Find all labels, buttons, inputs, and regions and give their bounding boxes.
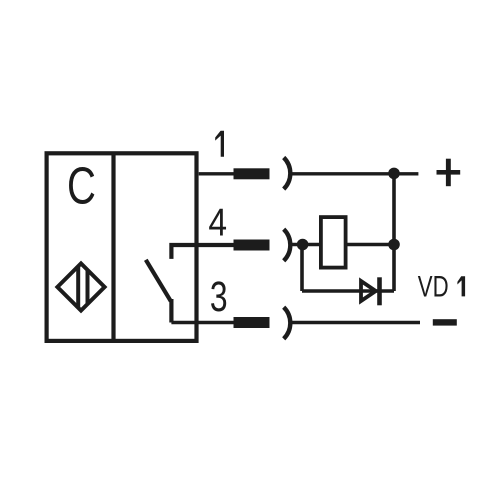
svg-text:VD: VD (418, 269, 449, 303)
plus sign (437, 170, 461, 175)
connector socket arc 4 (284, 229, 291, 261)
wire pin3 from switch (171, 321, 233, 324)
diode VD1 cathode bar (377, 277, 382, 305)
wire load to junction right (346, 243, 394, 246)
junction dot pin4 right (388, 239, 400, 251)
vertical wire junction to plus rail (392, 174, 396, 291)
diamond inner line right (86, 270, 90, 304)
svg-text:4: 4 (208, 200, 227, 244)
minus sign (433, 319, 457, 325)
switch lower lead (169, 299, 173, 323)
wire arc4 to load (291, 243, 320, 246)
switch blade (146, 260, 171, 301)
terminal bar pin 1 (234, 168, 270, 179)
terminal bar pin 3 (234, 317, 270, 328)
terminal bar pin 4 (234, 240, 270, 251)
switch fixed contact with hook (171, 245, 233, 259)
diamond sensor symbol (57, 263, 104, 310)
diode loop bottom wire (302, 289, 394, 293)
divider line (111, 153, 115, 341)
wire pin1 to plus (291, 172, 419, 175)
junction dot top (388, 168, 400, 180)
vertical wire left of diode loop (300, 245, 304, 292)
svg-text:C: C (67, 156, 96, 214)
load rectangle (321, 217, 346, 268)
wire pin3 to minus (291, 321, 420, 324)
connector socket arc 3 (284, 307, 291, 339)
diamond inner line left (76, 266, 80, 308)
connector socket arc 1 (284, 158, 291, 190)
wire pin1 from box (199, 172, 234, 175)
junction dot pin4 left (297, 239, 309, 251)
svg-text:3: 3 (210, 272, 228, 320)
pin label 1 (215, 131, 224, 157)
diode VD1 triangle (361, 281, 376, 301)
sensor body box (47, 153, 197, 341)
wire pin4 from switch (232, 243, 234, 246)
